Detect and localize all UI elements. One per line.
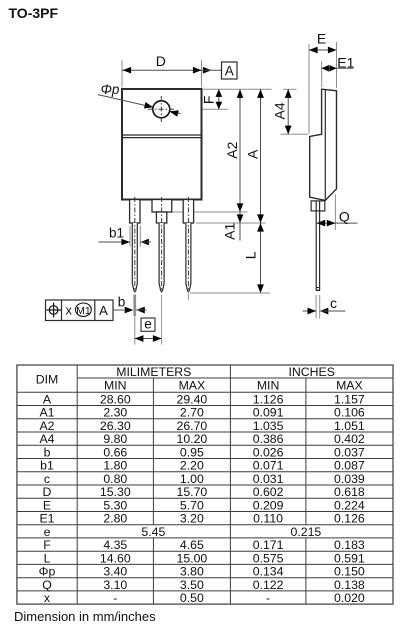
svg-text:L: L (44, 551, 51, 565)
svg-text:0.618: 0.618 (334, 485, 365, 499)
svg-text:Φp: Φp (39, 565, 56, 579)
svg-text:E1: E1 (337, 54, 354, 70)
svg-text:0.110: 0.110 (253, 512, 283, 526)
svg-text:b1: b1 (109, 225, 124, 240)
svg-text:0.037: 0.037 (334, 446, 365, 460)
svg-text:A4: A4 (39, 432, 54, 446)
svg-text:10.20: 10.20 (177, 432, 208, 446)
svg-text:x: x (66, 303, 73, 317)
svg-text:-: - (266, 591, 270, 605)
svg-text:D: D (156, 53, 166, 69)
svg-text:3.40: 3.40 (103, 565, 127, 579)
svg-text:0.031: 0.031 (253, 472, 284, 486)
svg-text:0.134: 0.134 (253, 565, 284, 579)
svg-text:MILIMETERS: MILIMETERS (116, 365, 191, 379)
svg-text:0.091: 0.091 (253, 406, 284, 420)
svg-text:Φp: Φp (101, 82, 120, 97)
svg-text:INCHES: INCHES (288, 365, 334, 379)
svg-text:0.138: 0.138 (334, 578, 365, 592)
svg-text:1.00: 1.00 (180, 472, 204, 486)
svg-text:b: b (118, 295, 126, 310)
svg-text:A: A (43, 393, 52, 407)
svg-text:F: F (43, 538, 51, 552)
svg-text:0.591: 0.591 (334, 551, 365, 565)
svg-text:5.70: 5.70 (180, 498, 204, 512)
svg-text:MAX: MAX (179, 379, 206, 393)
svg-text:A1: A1 (39, 406, 54, 420)
svg-text:c: c (44, 472, 50, 486)
svg-text:0.171: 0.171 (253, 538, 284, 552)
svg-text:26.30: 26.30 (100, 419, 131, 433)
svg-text:9.80: 9.80 (103, 432, 127, 446)
svg-text:Q: Q (339, 209, 350, 225)
svg-text:1.157: 1.157 (334, 393, 365, 407)
svg-text:1.126: 1.126 (253, 393, 284, 407)
svg-text:A: A (99, 303, 108, 318)
svg-text:15.70: 15.70 (177, 485, 208, 499)
svg-text:MAX: MAX (336, 379, 363, 393)
svg-text:0.575: 0.575 (253, 551, 284, 565)
svg-text:DIM: DIM (36, 372, 59, 386)
svg-text:b: b (44, 446, 51, 460)
svg-text:28.60: 28.60 (100, 393, 131, 407)
svg-text:2.70: 2.70 (180, 406, 204, 420)
svg-text:E1: E1 (39, 512, 54, 526)
svg-text:e: e (144, 317, 152, 332)
svg-text:0.026: 0.026 (253, 446, 284, 460)
svg-text:1.035: 1.035 (253, 419, 284, 433)
svg-text:2.30: 2.30 (103, 406, 127, 420)
svg-text:3.10: 3.10 (103, 578, 127, 592)
svg-text:0.224: 0.224 (334, 498, 365, 512)
svg-text:0.50: 0.50 (180, 591, 204, 605)
svg-text:A: A (225, 63, 234, 78)
svg-text:0.80: 0.80 (103, 472, 127, 486)
svg-text:3.50: 3.50 (180, 578, 204, 592)
svg-text:A2: A2 (39, 419, 54, 433)
svg-text:26.70: 26.70 (177, 419, 208, 433)
svg-text:e: e (44, 525, 51, 539)
svg-text:0.020: 0.020 (334, 591, 365, 605)
svg-text:0.087: 0.087 (334, 459, 365, 473)
svg-text:F: F (200, 96, 216, 105)
svg-text:TO-3PF: TO-3PF (9, 5, 59, 21)
svg-text:0.386: 0.386 (253, 432, 284, 446)
svg-text:5.45: 5.45 (141, 525, 165, 539)
svg-text:0.95: 0.95 (180, 446, 204, 460)
svg-text:14.60: 14.60 (100, 551, 131, 565)
svg-text:0.106: 0.106 (334, 406, 365, 420)
svg-text:15.30: 15.30 (100, 485, 131, 499)
svg-text:b1: b1 (40, 459, 54, 473)
svg-text:29.40: 29.40 (177, 393, 208, 407)
svg-text:3.20: 3.20 (180, 512, 204, 526)
svg-text:0.122: 0.122 (253, 578, 284, 592)
svg-text:A2: A2 (224, 141, 240, 158)
svg-text:0.071: 0.071 (253, 459, 284, 473)
svg-text:4.65: 4.65 (180, 538, 204, 552)
svg-text:E: E (43, 498, 51, 512)
svg-text:3.80: 3.80 (180, 565, 204, 579)
svg-text:0.126: 0.126 (334, 512, 365, 526)
svg-text:c: c (330, 295, 337, 311)
svg-text:Q: Q (42, 578, 52, 592)
svg-text:A4: A4 (272, 102, 288, 119)
svg-text:M1: M1 (76, 305, 91, 317)
svg-text:0.602: 0.602 (253, 485, 284, 499)
svg-text:0.209: 0.209 (253, 498, 284, 512)
svg-text:0.150: 0.150 (334, 565, 365, 579)
svg-text:0.402: 0.402 (334, 432, 365, 446)
svg-text:4.35: 4.35 (103, 538, 127, 552)
svg-text:A1: A1 (222, 223, 238, 240)
svg-text:E: E (317, 31, 326, 47)
svg-text:0.215: 0.215 (291, 525, 322, 539)
svg-text:2.80: 2.80 (103, 512, 127, 526)
svg-text:0.039: 0.039 (334, 472, 365, 486)
svg-text:15.00: 15.00 (177, 551, 208, 565)
svg-text:x: x (44, 591, 51, 605)
svg-text:5.30: 5.30 (103, 498, 127, 512)
svg-text:2.20: 2.20 (180, 459, 204, 473)
svg-text:D: D (43, 485, 52, 499)
svg-text:MIN: MIN (104, 379, 127, 393)
svg-text:-: - (113, 591, 117, 605)
svg-text:MIN: MIN (257, 379, 280, 393)
svg-text:L: L (243, 251, 259, 259)
svg-text:Dimension in mm/inches: Dimension in mm/inches (14, 609, 156, 624)
svg-text:0.183: 0.183 (334, 538, 365, 552)
svg-text:A: A (245, 149, 261, 159)
svg-text:1.80: 1.80 (103, 459, 127, 473)
svg-text:1.051: 1.051 (334, 419, 365, 433)
svg-text:0.66: 0.66 (103, 446, 127, 460)
